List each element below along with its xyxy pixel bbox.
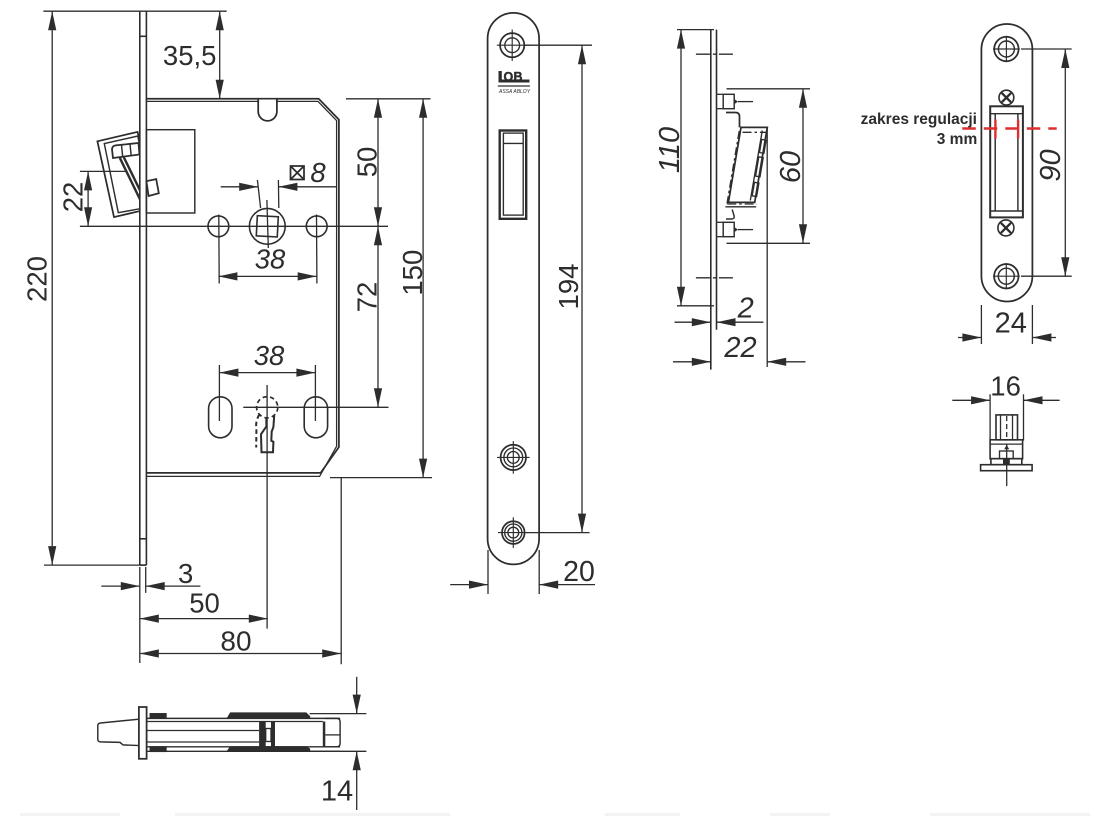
svg-text:14: 14 — [321, 775, 353, 807]
svg-text:3: 3 — [178, 558, 193, 589]
svg-text:110: 110 — [654, 127, 686, 173]
svg-text:72: 72 — [352, 282, 383, 313]
svg-text:35,5: 35,5 — [163, 40, 217, 71]
svg-text:OB: OB — [504, 70, 523, 84]
svg-text:38: 38 — [255, 243, 286, 274]
svg-text:22: 22 — [723, 332, 756, 364]
svg-text:60: 60 — [775, 151, 807, 183]
svg-text:220: 220 — [22, 256, 53, 302]
svg-text:38: 38 — [254, 340, 285, 371]
svg-text:8: 8 — [310, 157, 326, 188]
svg-text:150: 150 — [397, 250, 428, 296]
svg-text:50: 50 — [189, 588, 220, 619]
svg-text:ASSA ABLOY: ASSA ABLOY — [498, 89, 531, 95]
svg-text:24: 24 — [995, 308, 1027, 340]
svg-text:2: 2 — [737, 293, 754, 325]
svg-text:zakres regulacji: zakres regulacji — [861, 111, 977, 128]
svg-text:194: 194 — [553, 264, 584, 310]
svg-text:20: 20 — [563, 556, 595, 588]
svg-text:50: 50 — [352, 147, 383, 178]
svg-text:80: 80 — [220, 625, 251, 656]
svg-text:16: 16 — [990, 370, 1021, 401]
svg-text:3 mm: 3 mm — [937, 131, 978, 148]
svg-text:90: 90 — [1035, 149, 1067, 181]
svg-text:22: 22 — [58, 182, 89, 213]
